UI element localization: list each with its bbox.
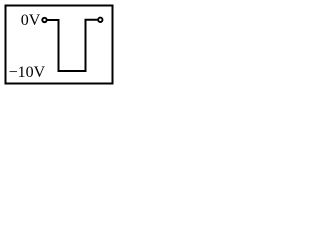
terminal (left, 0V node) <box>42 18 46 22</box>
svg-text:−10V: −10V <box>9 64 46 81</box>
outer box frame <box>6 6 113 84</box>
wire: negative pulse waveform from 0V node down to -10V level and back <box>45 20 101 71</box>
svg-text:0V: 0V <box>21 12 41 29</box>
terminal (right node) <box>98 18 102 22</box>
background <box>0 0 119 89</box>
